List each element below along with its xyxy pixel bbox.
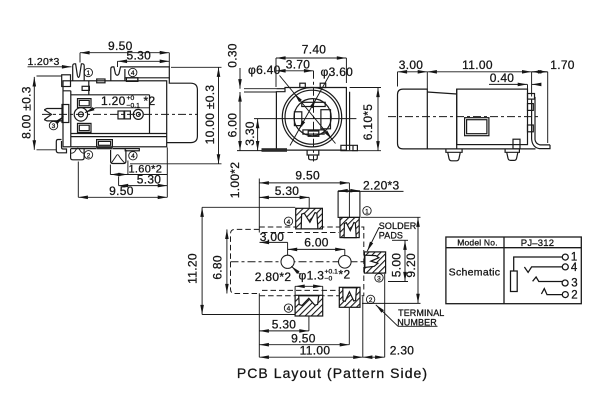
dim 6.80 xyxy=(226,229,228,293)
leg terminal 2 xyxy=(71,149,85,160)
svg-text:11.20: 11.20 xyxy=(186,253,200,284)
svg-text:9.50: 9.50 xyxy=(295,168,320,182)
pin digits xyxy=(571,252,578,302)
dim 0.30 xyxy=(239,68,241,89)
svg-text:2: 2 xyxy=(369,297,373,304)
inner dashed top xyxy=(262,232,339,234)
svg-text:4: 4 xyxy=(131,70,135,77)
dim 7.40 xyxy=(276,57,346,59)
dim 5.00 PCB xyxy=(404,240,406,281)
solder pad 4 top-left xyxy=(296,208,323,229)
wire pin 1 xyxy=(514,257,563,271)
contact screw 2 xyxy=(133,109,143,119)
centerline A xyxy=(42,113,197,115)
inner bottom bar xyxy=(303,130,324,134)
dim 5.30 bottom PCB xyxy=(259,330,309,332)
dim 2.80*2 xyxy=(295,285,323,287)
svg-text:4: 4 xyxy=(571,262,578,274)
outer ring xyxy=(282,88,341,147)
base plate C xyxy=(427,148,535,150)
dim 11.20 xyxy=(201,207,203,314)
dim 10.00±0.3 A xyxy=(218,67,220,164)
leg terminal 4 bottom xyxy=(111,150,126,164)
dim 6.00 PCB xyxy=(288,248,345,250)
svg-text:3.00: 3.00 xyxy=(399,58,424,72)
dim 9.20 PCB xyxy=(417,217,419,303)
svg-text:PCB Layout (Pattern Side): PCB Layout (Pattern Side) xyxy=(237,365,428,381)
circled terminal numbers view A xyxy=(49,68,137,160)
dim 2.20*3 xyxy=(338,190,360,192)
contact screw 1 xyxy=(74,108,87,121)
terminal 3 pin left xyxy=(44,109,62,121)
svg-text:9.20: 9.20 xyxy=(404,253,418,278)
ledge notch rects on top edge xyxy=(97,79,105,83)
dim 0.40 C xyxy=(489,83,527,85)
dim 3.00 PCB xyxy=(260,241,288,243)
spring tab terminal 1 xyxy=(73,64,85,81)
svg-text:2: 2 xyxy=(571,289,577,301)
inner dashed bottom xyxy=(262,289,339,291)
leader solder pads xyxy=(367,228,379,252)
svg-text:+0: +0 xyxy=(127,95,135,102)
left foot front (filled) xyxy=(262,148,288,152)
svg-text:9.50: 9.50 xyxy=(109,184,134,198)
small inner rect top-left xyxy=(82,86,89,90)
dim 5.30 top PCB xyxy=(259,196,309,198)
svg-text:φ1.3: φ1.3 xyxy=(299,268,325,282)
inner left bar xyxy=(294,112,301,126)
ext left vertical PCB xyxy=(258,179,260,233)
svg-text:Model No.: Model No. xyxy=(457,238,498,248)
svg-text:PADS: PADS xyxy=(379,230,403,240)
dim 9.50 top A xyxy=(80,52,169,54)
svg-text:4: 4 xyxy=(131,153,135,160)
schematic sleeve xyxy=(511,271,518,292)
svg-text:PJ–312: PJ–312 xyxy=(521,238,554,249)
solder pad 2 bottom-middle xyxy=(339,287,360,307)
svg-text:6.00: 6.00 xyxy=(304,236,329,250)
inner top bar xyxy=(302,102,325,106)
dim 5.30 bottom A xyxy=(119,185,168,187)
svg-text:NUMBER: NUMBER xyxy=(397,317,437,327)
dim 8.00±0.3 A xyxy=(33,77,35,150)
right plate squares xyxy=(528,104,534,111)
main block C xyxy=(457,89,528,145)
svg-text:2.80*2: 2.80*2 xyxy=(255,270,292,284)
contact window rects xyxy=(78,99,92,108)
svg-text:φ3.60: φ3.60 xyxy=(321,65,354,79)
horizontal centerline front xyxy=(254,118,356,120)
solder pad 1 top-right xyxy=(340,217,359,237)
leg 2 C xyxy=(505,149,519,161)
svg-text:10.00 ±0.3: 10.00 ±0.3 xyxy=(203,85,217,145)
bottom ledge rect xyxy=(97,140,113,148)
leader phi 1.3 xyxy=(291,266,299,274)
bottom hook leg xyxy=(56,140,66,153)
circled terminal numbers PCB xyxy=(284,207,383,313)
solder pad 3 right-middle xyxy=(364,252,385,273)
svg-text:1.00*2: 1.00*2 xyxy=(228,162,242,199)
internal ledge lines A xyxy=(63,81,167,147)
svg-text:*2: *2 xyxy=(144,94,156,108)
pin circles xyxy=(562,254,568,260)
top small tabs front xyxy=(300,83,306,87)
spring tab terminal 4 + raised plate xyxy=(111,67,170,81)
right foot front xyxy=(341,145,358,150)
svg-text:3: 3 xyxy=(377,275,381,282)
svg-text:TERMINAL: TERMINAL xyxy=(398,308,444,318)
wire pin 3 contact xyxy=(533,277,562,282)
svg-text:3: 3 xyxy=(52,123,56,130)
dim 9.50 bottom PCB xyxy=(259,344,349,346)
dim 3.70 xyxy=(276,70,314,72)
right bracket + foot xyxy=(532,97,550,149)
svg-text:11.00: 11.00 xyxy=(462,58,493,72)
svg-text:3: 3 xyxy=(571,278,577,290)
svg-text:2.20*3: 2.20*3 xyxy=(363,178,400,192)
svg-text:φ6.40: φ6.40 xyxy=(248,63,281,77)
square body front xyxy=(276,88,346,151)
solder pad 4 bottom-left xyxy=(295,295,323,316)
svg-text:*2: *2 xyxy=(339,268,351,282)
leader text 1.20 tol xyxy=(96,107,150,109)
center slot xyxy=(308,131,319,136)
dim 11.00 bottom PCB xyxy=(259,356,363,358)
svg-text:0.30: 0.30 xyxy=(225,43,239,68)
svg-text:1.20*3: 1.20*3 xyxy=(28,56,60,68)
leader terminal number xyxy=(376,305,398,327)
wire pin 4 contact xyxy=(524,267,562,273)
svg-text:2.30: 2.30 xyxy=(390,344,415,358)
svg-text:1.20: 1.20 xyxy=(101,94,126,108)
svg-text:5.30: 5.30 xyxy=(137,172,162,186)
svg-text:+0.1: +0.1 xyxy=(325,268,339,275)
svg-text:5.30: 5.30 xyxy=(127,48,152,62)
svg-text:6.80: 6.80 xyxy=(210,255,224,280)
dashed barrel PCB xyxy=(231,229,260,293)
dim 1.70 C xyxy=(532,71,548,73)
svg-text:Schematic: Schematic xyxy=(449,266,501,278)
svg-text:1: 1 xyxy=(365,208,369,215)
solder pad 1 leg rect xyxy=(338,191,360,217)
leg 1 C xyxy=(446,149,462,161)
dim 6.00 left xyxy=(239,92,241,151)
leader dia 3.60 xyxy=(290,75,330,146)
svg-text:5.30: 5.30 xyxy=(275,184,300,198)
svg-text:6.10*5: 6.10*5 xyxy=(361,104,375,141)
inner circle xyxy=(294,99,331,136)
svg-text:0.40: 0.40 xyxy=(490,71,515,85)
dim 3.30 left xyxy=(257,119,259,151)
svg-text:7.40: 7.40 xyxy=(302,43,327,57)
window C xyxy=(465,118,489,136)
center pair rects xyxy=(118,111,124,119)
bottom plate line xyxy=(71,148,125,150)
small tick above plate xyxy=(513,139,520,149)
svg-text:11.00: 11.00 xyxy=(300,344,331,358)
hole phi1.3 right xyxy=(339,255,352,268)
vertical centerline front xyxy=(313,71,315,162)
svg-text:−0: −0 xyxy=(325,276,333,283)
right bottom plate rect xyxy=(125,149,139,151)
svg-text:3.30: 3.30 xyxy=(243,121,257,146)
wire pin 2 contact xyxy=(541,289,562,295)
svg-text:2: 2 xyxy=(87,152,91,159)
dim 11.00 C xyxy=(427,71,531,73)
barrel A xyxy=(167,78,198,143)
svg-text:3.70: 3.70 xyxy=(286,57,311,71)
dim 1.60*2 A xyxy=(110,174,167,176)
svg-text:4: 4 xyxy=(287,306,291,313)
centerline C xyxy=(388,116,540,118)
leader circled 3 xyxy=(57,116,64,122)
dim 9.50 top PCB xyxy=(259,182,349,184)
dim 2.30 xyxy=(363,356,385,358)
table frame xyxy=(446,237,581,304)
dark bar under ledge rect xyxy=(97,147,112,149)
leader 1.20*3 xyxy=(28,66,72,68)
svg-text:1.70: 1.70 xyxy=(550,58,575,72)
dim 3.00 C xyxy=(398,71,428,73)
svg-text:4: 4 xyxy=(287,219,291,226)
svg-text:5.00: 5.00 xyxy=(390,253,404,278)
svg-text:8.00 ±0.3: 8.00 ±0.3 xyxy=(20,86,34,139)
body outline A xyxy=(63,81,167,147)
svg-text:5.30: 5.30 xyxy=(272,318,297,332)
top-left tab xyxy=(62,75,71,87)
hole phi1.3 left xyxy=(281,255,294,268)
svg-text:3.00: 3.00 xyxy=(260,230,285,244)
svg-text:1: 1 xyxy=(86,70,90,77)
dim 9.50 bottom A xyxy=(78,196,167,198)
inner right bar xyxy=(321,110,331,129)
mid section C xyxy=(427,89,456,149)
leader dia 6.40 xyxy=(280,76,336,144)
barrel C xyxy=(398,89,428,149)
right plate top rect xyxy=(528,94,535,100)
dim 6.10*5 right xyxy=(377,88,379,151)
svg-text:−0.1: −0.1 xyxy=(127,103,141,110)
dim 5.30 top A xyxy=(118,60,170,62)
svg-text:6.00: 6.00 xyxy=(225,113,239,138)
second ring xyxy=(285,90,339,144)
dashed body outline PCB xyxy=(259,227,364,296)
bottom pin front xyxy=(307,150,319,160)
centerline PCB xyxy=(231,261,365,263)
